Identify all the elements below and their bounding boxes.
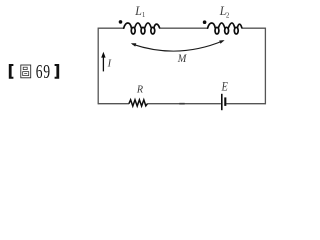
svg-text:R: R xyxy=(136,84,143,96)
inductor L2 xyxy=(208,23,242,34)
polarity dot of L1 xyxy=(119,20,123,24)
svg-text:M: M xyxy=(177,51,187,65)
svg-text:6: 6 xyxy=(36,60,43,82)
figure caption character 圖 xyxy=(21,65,31,78)
wire right side xyxy=(264,28,266,105)
wire bottom left segment xyxy=(98,103,129,105)
svg-text:9: 9 xyxy=(43,60,50,82)
joint mark on bottom wire xyxy=(179,103,184,105)
svg-text:2: 2 xyxy=(226,11,230,19)
svg-text:I: I xyxy=(107,59,112,70)
wire top left segment xyxy=(98,27,124,29)
inductor L1 xyxy=(124,23,160,34)
figure caption bracket right 】 xyxy=(55,64,60,79)
figure caption bracket left 【 xyxy=(9,64,14,79)
svg-text:L: L xyxy=(134,3,142,18)
resistor R xyxy=(129,100,148,106)
wire left side xyxy=(97,28,99,105)
wire top right segment xyxy=(242,27,266,29)
current arrow I xyxy=(101,52,105,72)
figure caption number 69 xyxy=(36,60,50,82)
svg-text:1: 1 xyxy=(142,11,146,19)
wire bottom middle segment xyxy=(147,103,221,105)
svg-text:E: E xyxy=(221,78,228,93)
label L1 xyxy=(134,3,146,19)
mutual inductance arrow M xyxy=(131,40,225,51)
battery E plates xyxy=(222,94,226,110)
polarity dot of L2 xyxy=(203,20,207,24)
wire bottom right segment xyxy=(226,103,265,105)
wire top middle segment xyxy=(159,27,208,29)
label L2 xyxy=(219,3,230,19)
